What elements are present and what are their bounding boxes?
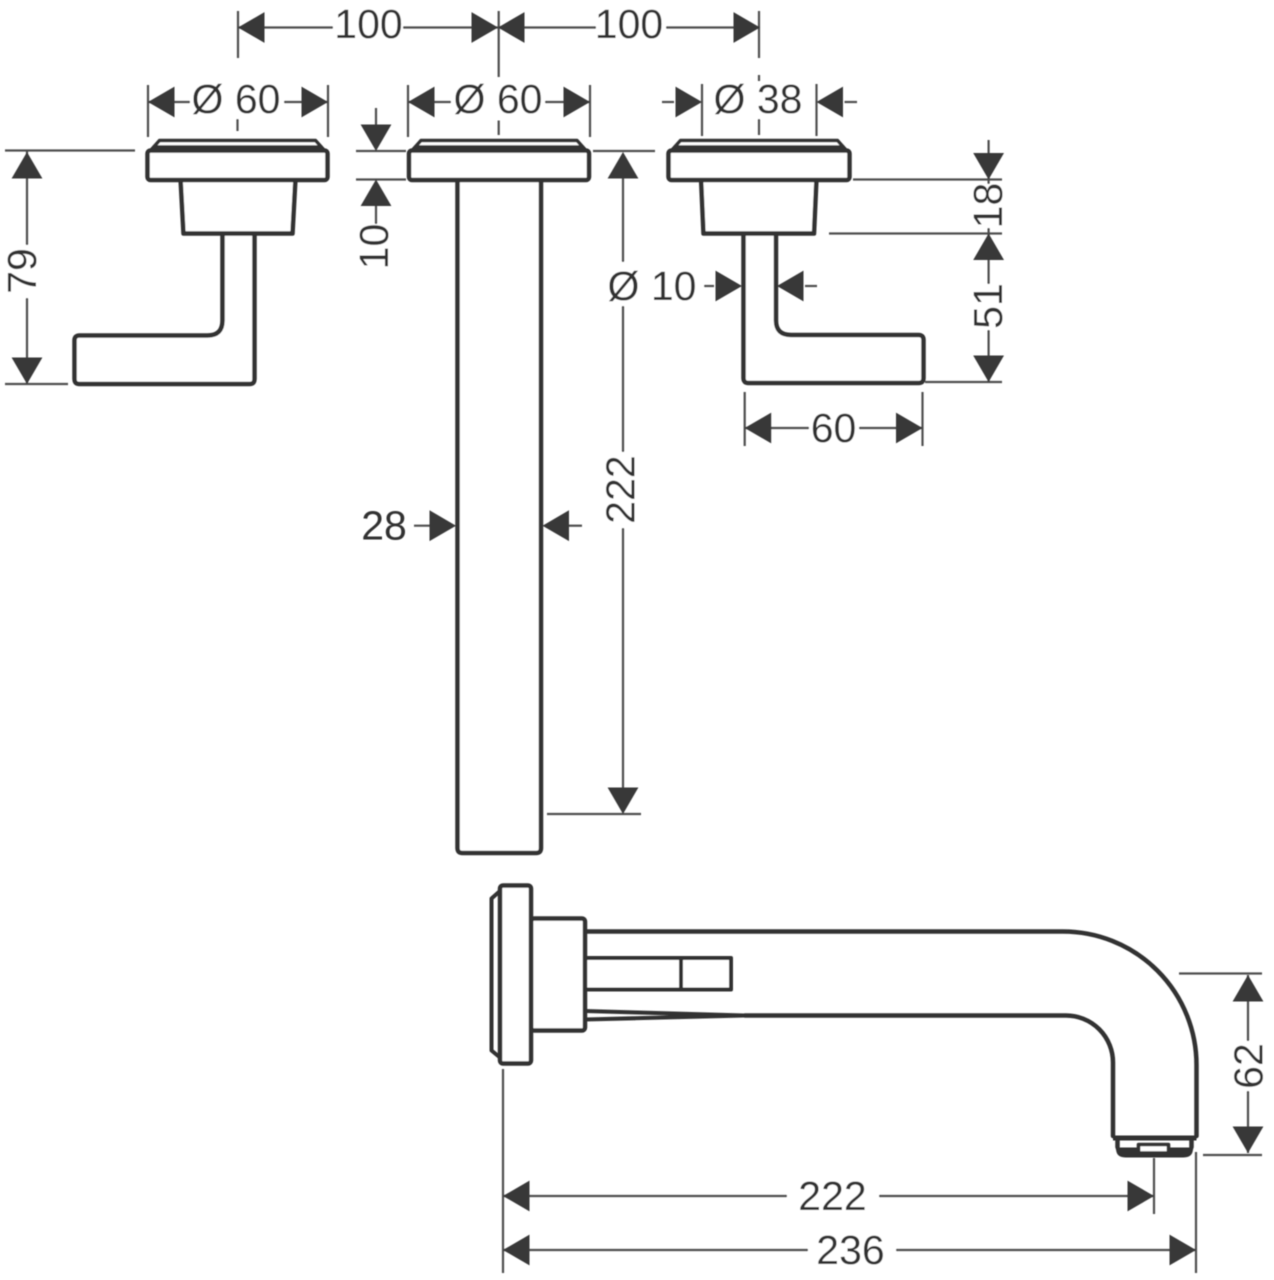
svg-text:Ø 60: Ø 60	[454, 76, 543, 122]
svg-text:10: 10	[351, 224, 397, 270]
svg-text:Ø 10: Ø 10	[608, 263, 697, 309]
svg-text:Ø 60: Ø 60	[192, 76, 281, 122]
svg-text:18: 18	[965, 183, 1011, 229]
svg-text:222: 222	[798, 1173, 866, 1219]
svg-text:79: 79	[0, 248, 45, 294]
svg-text:51: 51	[965, 283, 1011, 329]
svg-text:100: 100	[334, 1, 402, 47]
svg-text:60: 60	[811, 405, 857, 451]
svg-text:100: 100	[595, 1, 663, 47]
svg-text:222: 222	[598, 455, 644, 523]
svg-text:236: 236	[816, 1227, 884, 1273]
svg-text:62: 62	[1226, 1043, 1272, 1089]
svg-text:28: 28	[361, 503, 407, 549]
svg-text:Ø 38: Ø 38	[714, 76, 803, 122]
